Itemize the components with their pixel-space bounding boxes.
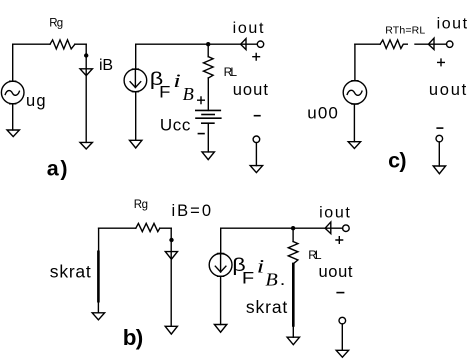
wire [208, 43, 257, 45]
current arrow iout (b) [325, 222, 331, 234]
node iB junction [84, 53, 88, 57]
current source U2 (beta_F i_B) [209, 254, 232, 277]
wire [85, 44, 87, 142]
ground [80, 142, 92, 149]
svg-text:ug: ug [26, 92, 46, 110]
node junction (b) [169, 238, 173, 242]
svg-text:B: B [265, 270, 277, 290]
svg-text:F: F [159, 83, 170, 101]
wire [12, 44, 14, 81]
svg-text:F: F [242, 269, 254, 288]
label - (port b) [337, 292, 343, 294]
label + (port c) [438, 59, 445, 66]
svg-text:RL: RL [308, 248, 322, 262]
wire [220, 228, 222, 253]
wire [341, 324, 343, 350]
label + (port b) [336, 237, 343, 244]
svg-text:uout: uout [233, 81, 269, 99]
current arrow iB [80, 69, 92, 76]
ground [202, 152, 214, 160]
svg-text:uout: uout [429, 81, 467, 99]
voltage source u00 [343, 81, 366, 104]
svg-text:Ucc: Ucc [160, 115, 191, 134]
wire [160, 227, 171, 229]
ground [433, 166, 445, 174]
label - (battery) [198, 133, 204, 135]
ground [250, 166, 262, 173]
resistor Rg [50, 40, 75, 49]
wire [415, 43, 447, 45]
wire [12, 104, 14, 130]
terminal - (port a) [253, 136, 260, 143]
svg-text:skrat: skrat [50, 261, 91, 281]
resistor RL (b) [288, 242, 298, 264]
svg-text:uout: uout [319, 263, 353, 281]
wire [207, 78, 209, 110]
current arrow iout [241, 39, 246, 50]
svg-text:u00: u00 [307, 104, 338, 123]
label - (port c) [437, 127, 442, 129]
svg-text:Rg: Rg [134, 199, 148, 211]
svg-text:RL: RL [224, 65, 238, 79]
wire [207, 44, 209, 57]
wire [255, 143, 257, 166]
svg-text:skrat: skrat [246, 297, 288, 317]
terminal + (port c) [447, 41, 453, 47]
short skrat (b left) [97, 252, 100, 301]
wire [13, 43, 50, 45]
svg-text:iout: iout [233, 20, 264, 37]
wire [292, 326, 294, 338]
svg-text:a): a) [47, 157, 68, 181]
current source U1 (beta_F i_B) [124, 69, 147, 92]
wire [135, 92, 137, 141]
label . (b) [282, 283, 284, 285]
svg-text:i: i [257, 257, 265, 278]
wire [207, 123, 209, 152]
svg-text:iout: iout [319, 204, 350, 221]
terminal + (port a) [257, 41, 263, 47]
svg-text:b): b) [123, 325, 144, 350]
wire [170, 228, 172, 326]
voltage source ug [1, 81, 24, 104]
short skrat (b right) [292, 264, 295, 326]
svg-text:iout: iout [437, 15, 468, 32]
terminal + (port b) [343, 225, 350, 232]
ground [130, 140, 142, 148]
node junction [206, 42, 210, 46]
svg-text:iB: iB [99, 57, 113, 74]
resistor RL [204, 57, 214, 78]
resistor RTh [380, 40, 407, 49]
ground [214, 325, 226, 333]
label - (port a) [255, 115, 260, 117]
svg-text:Rg: Rg [49, 17, 63, 29]
resistor Rg (b) [136, 223, 160, 231]
svg-text:iB=0: iB=0 [172, 202, 212, 220]
ground [287, 337, 299, 345]
battery Ucc [196, 110, 221, 123]
current arrow iB (b) [165, 252, 177, 260]
svg-text:B: B [183, 84, 194, 104]
ground [92, 313, 104, 320]
ground [348, 142, 360, 149]
svg-text:RTh=RL: RTh=RL [385, 24, 425, 36]
wire [98, 228, 100, 252]
wire [135, 44, 137, 69]
terminal - (port c) [436, 135, 443, 142]
wire [75, 43, 86, 45]
wire [221, 227, 293, 229]
ground [336, 350, 348, 357]
wire [293, 227, 343, 229]
wire [136, 43, 209, 45]
terminal - (port b) [339, 317, 346, 324]
wire [354, 44, 356, 80]
ground [165, 326, 177, 334]
label + (battery) [198, 97, 205, 104]
wire [97, 301, 99, 313]
wire [292, 228, 294, 241]
svg-text:c): c) [388, 149, 406, 173]
ground [7, 130, 19, 137]
wire [353, 104, 355, 142]
wire [438, 142, 440, 166]
wire [355, 43, 380, 45]
current arrow iout (c) [428, 38, 434, 49]
wire [99, 227, 136, 229]
wire [220, 276, 222, 324]
label + (port a) [253, 53, 260, 60]
svg-text:i: i [173, 71, 181, 92]
node junction (b out) [291, 226, 295, 230]
